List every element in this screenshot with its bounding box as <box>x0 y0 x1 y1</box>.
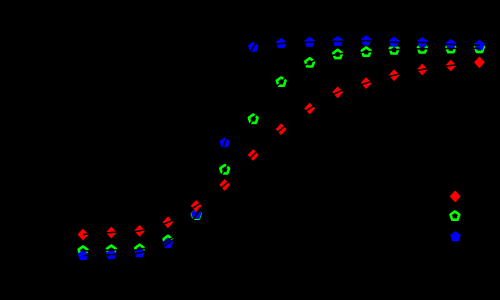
blue series point 12 (filled pentagon) <box>389 37 398 46</box>
black line stripe over green series point 10 <box>330 53 346 56</box>
black line stripe over blue series point 9 <box>302 41 318 44</box>
black line stripe over blue series point 8 <box>273 43 289 44</box>
black line stripe over blue series point 4 <box>161 239 174 248</box>
red series point 8 (filled diamond) <box>276 124 286 134</box>
green series point 14 (open pentagon) <box>446 44 455 52</box>
red series point 1 (filled diamond) <box>78 229 88 239</box>
legend red diamond <box>450 191 460 201</box>
black line stripe over green series point 6 <box>221 163 229 177</box>
black line stripe over blue series point 3 <box>132 251 148 254</box>
black line stripe over red series point 10 <box>330 89 345 96</box>
blue series point 11 (filled pentagon) <box>362 36 371 45</box>
blue series point 3 (filled pentagon) <box>135 248 144 257</box>
black line stripe over red series point 8 <box>275 124 287 134</box>
green series point 6 (open pentagon) <box>220 165 229 173</box>
black line stripe over red series point 5 <box>190 202 203 211</box>
green series point 15 (open pentagon) <box>475 44 484 52</box>
green series point 11 (open pentagon) <box>362 47 371 55</box>
red series point 14 (filled diamond) <box>446 60 456 70</box>
black line stripe over green series point 3 <box>132 248 148 251</box>
black line stripe over green series point 13 <box>414 48 430 50</box>
blue series point 9 (filled pentagon) <box>305 37 314 46</box>
red series point 15 (filled diamond) <box>475 57 485 67</box>
black line stripe over blue series point 6 <box>222 135 227 150</box>
green series point 9 (open pentagon) <box>305 58 314 66</box>
black line stripe over red series point 4 <box>161 219 176 225</box>
black line stripe over red series point 11 <box>359 81 374 86</box>
red series point 7 (filled diamond) <box>248 150 258 160</box>
blue series point 4 (filled pentagon) <box>163 239 172 248</box>
black line stripe over red series point 9 <box>303 104 316 113</box>
black line stripe over green series point 1 <box>83 250 91 252</box>
red series point 6 (filled diamond) <box>220 180 230 190</box>
black line stripe over red series point 13 <box>414 68 430 71</box>
black line stripe over red series point 14 <box>443 65 459 67</box>
red series point 12 (filled diamond) <box>389 70 399 80</box>
black line stripe over blue series point 2 <box>103 253 119 256</box>
black line stripe over green series point 5 <box>191 209 201 221</box>
green series point 8 (open pentagon) <box>277 77 286 85</box>
black line stripe over blue series point 1 <box>83 254 91 256</box>
green series point 4 (open pentagon) <box>164 236 173 244</box>
red series point 3 (filled diamond) <box>135 226 145 236</box>
black line stripe over green series point 11 <box>358 51 374 52</box>
black line stripe over blue series point 11 <box>358 40 374 42</box>
black line stripe over red series point 2 <box>103 232 119 233</box>
black line stripe over green series point 14 <box>443 47 459 49</box>
blue series point 1 (filled pentagon) <box>78 251 87 260</box>
red series point 5 (filled diamond) <box>191 201 201 211</box>
black line stripe over red series point 1 <box>83 233 91 236</box>
green series point 2 (open pentagon) <box>107 246 116 254</box>
red series point 11 (filled diamond) <box>361 78 371 88</box>
black line stripe over green series point 12 <box>386 49 402 50</box>
legend green open pentagon <box>451 211 460 219</box>
black line stripe over red series point 6 <box>219 180 231 191</box>
black line stripe over blue series point 7 <box>249 40 257 54</box>
blue series point 6 (filled pentagon) <box>220 138 229 147</box>
green series point 5 (open pentagon) <box>192 210 201 218</box>
blue series point 15 (filled pentagon) <box>475 40 484 49</box>
blue series point 14 (filled pentagon) <box>446 40 455 49</box>
black line stripe over green series point 9 <box>303 59 317 66</box>
red series point 4 (filled diamond) <box>163 217 173 227</box>
black line stripe over blue series point 12 <box>386 41 402 44</box>
green series point 3 (open pentagon) <box>135 245 144 253</box>
green series point 1 (open pentagon) <box>79 246 88 254</box>
legend blue filled pentagon <box>451 232 460 241</box>
black line stripe over red series point 12 <box>386 73 402 77</box>
black line stripe over green series point 7 <box>249 112 258 125</box>
black line stripe over blue series point 15 <box>471 44 479 46</box>
red series point 13 (filled diamond) <box>418 64 428 74</box>
black line stripe over red series point 7 <box>248 149 259 160</box>
blue series point 8 (filled pentagon) <box>277 39 286 48</box>
red series point 2 (filled diamond) <box>107 227 117 237</box>
black line stripe over blue series point 10 <box>330 40 346 42</box>
black line stripe over blue series point 5 <box>192 208 200 222</box>
black line stripe over red series point 3 <box>132 229 148 232</box>
black line stripe over green series point 4 <box>161 236 175 244</box>
black line stripe over green series point 8 <box>276 76 287 87</box>
green series point 10 (open pentagon) <box>333 50 342 58</box>
blue series point 13 (filled pentagon) <box>418 38 427 47</box>
blue series point 5 (filled pentagon) <box>192 210 201 219</box>
blue series point 7 (filled pentagon) <box>249 42 258 51</box>
green series point 13 (open pentagon) <box>418 44 427 52</box>
black line stripe over blue series point 14 <box>443 43 459 46</box>
black line stripe over green series point 15 <box>471 47 479 49</box>
black line stripe over green series point 2 <box>103 249 119 251</box>
blue series point 2 (filled pentagon) <box>107 250 116 259</box>
green series point 7 (open pentagon) <box>249 115 258 123</box>
green series point 12 (open pentagon) <box>390 45 399 53</box>
red series point 9 (filled diamond) <box>305 103 315 113</box>
blue series point 10 (filled pentagon) <box>333 37 342 46</box>
black line stripe over blue series point 13 <box>414 41 430 44</box>
red series point 10 (filled diamond) <box>333 87 343 97</box>
